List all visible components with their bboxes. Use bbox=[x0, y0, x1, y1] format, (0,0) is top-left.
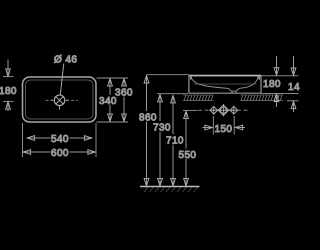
tap hole symbol left bbox=[209, 106, 218, 115]
floor line bbox=[140, 186, 200, 188]
side view inner back wall line bbox=[194, 83, 257, 85]
svg-text:150: 150 bbox=[215, 124, 233, 135]
basin top view outer rim bbox=[23, 77, 97, 122]
label 550 bbox=[178, 149, 198, 160]
dim 180 extension tick top bbox=[3, 76, 14, 78]
drain cardinal ticks bbox=[51, 100, 69, 109]
height dim 710 line bbox=[172, 95, 174, 101]
floor hatching bbox=[144, 187, 198, 192]
label 360 bbox=[116, 87, 134, 97]
height dim 730 line bbox=[159, 94, 161, 100]
height dim 550 line bbox=[185, 111, 187, 117]
label 860 bbox=[139, 111, 159, 122]
dim 360 line bbox=[123, 79, 125, 85]
svg-text:730: 730 bbox=[153, 123, 171, 134]
side view rim right lip bbox=[259, 76, 261, 80]
label 340 bbox=[100, 95, 118, 105]
dim 180 arrow up bbox=[7, 102, 9, 111]
svg-text:540: 540 bbox=[51, 134, 69, 145]
drain dashed centerline bbox=[46, 99, 79, 101]
label 600 bbox=[51, 147, 70, 157]
svg-text:360: 360 bbox=[115, 88, 133, 99]
side view left edge bbox=[188, 76, 190, 94]
right extension line bottom bbox=[97, 121, 129, 123]
side view bottom line bbox=[189, 92, 261, 94]
svg-text:180: 180 bbox=[263, 79, 281, 90]
dim 145 side arrows bbox=[293, 56, 295, 68]
dim 540 line bbox=[27, 137, 34, 139]
drain cross marks bbox=[56, 97, 63, 104]
tap hole symbol right bbox=[229, 106, 238, 115]
height dim 860 line bbox=[146, 76, 148, 83]
dim 180 arrow down bbox=[7, 60, 9, 77]
bottom extension line right bbox=[95, 123, 97, 157]
basin top view inner bowl edge bbox=[26, 80, 94, 119]
tap dim extension left bbox=[212, 116, 214, 135]
reference line counter height bbox=[157, 93, 188, 95]
dim 180 extension tick drain level bbox=[3, 100, 14, 102]
dim 600 line bbox=[23, 151, 30, 153]
leader line for diameter 46 bbox=[60, 64, 64, 95]
svg-text:180: 180 bbox=[0, 86, 17, 97]
side view right edge bbox=[260, 76, 262, 94]
label 540 bbox=[51, 133, 70, 143]
countertop hatch left bbox=[183, 95, 214, 101]
side view bottom extension line bbox=[261, 93, 299, 95]
side view rim top line bbox=[189, 75, 262, 77]
reference line rim height bbox=[147, 74, 189, 76]
svg-text:550: 550 bbox=[179, 150, 197, 161]
dim 150 arrows bbox=[203, 127, 213, 129]
right extension line top bbox=[97, 77, 129, 79]
side view rim left lip bbox=[189, 76, 191, 80]
svg-text:710: 710 bbox=[166, 136, 184, 147]
bottom extension line left bbox=[22, 123, 24, 157]
countertop hatch right bbox=[241, 95, 284, 101]
drain circle bbox=[54, 95, 65, 106]
label 730 bbox=[153, 121, 173, 132]
tap hole symbol middle bbox=[217, 104, 229, 116]
dim 340 line bbox=[109, 79, 111, 85]
svg-text:Ø 46: Ø 46 bbox=[54, 55, 77, 66]
side view rim extension line bbox=[261, 75, 298, 77]
svg-text:145: 145 bbox=[288, 82, 300, 93]
side view inner bowl profile bbox=[191, 76, 258, 91]
reference tick tap centerline bbox=[183, 109, 198, 111]
dim 180 side arrows bbox=[276, 56, 278, 68]
side view drain stub bbox=[232, 92, 236, 95]
tap template dashed centerline bbox=[198, 109, 249, 111]
label 710 bbox=[166, 134, 191, 145]
tap dim extension right bbox=[233, 116, 235, 135]
svg-text:600: 600 bbox=[51, 148, 69, 159]
